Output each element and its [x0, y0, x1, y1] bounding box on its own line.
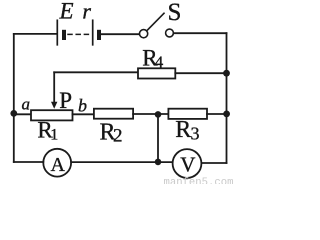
wire slider branch horizontal [54, 71, 138, 73]
wire right vertical rail [226, 33, 228, 163]
wire R3 to right rail [207, 113, 227, 115]
label E [59, 0, 74, 24]
wire R2 to R3 through junction [133, 113, 168, 115]
wire ammeter to voltmeter [71, 161, 172, 163]
ammeter A [43, 149, 71, 177]
label r [82, 0, 91, 24]
svg-text:a: a [22, 94, 31, 113]
resistor R4 [138, 68, 175, 78]
junction dot R4 right [223, 70, 230, 77]
svg-text:V: V [180, 152, 195, 176]
label R1 [37, 118, 58, 144]
battery E r (cells with dashed middle) [57, 20, 101, 45]
wire voltmeter to right rail [201, 162, 226, 164]
watermark manfen5.com [164, 177, 234, 189]
node a junction dot [10, 110, 17, 117]
wire switch to right rail [173, 32, 226, 34]
slider P arrow onto R1 [51, 72, 57, 109]
wire bottom left to ammeter [14, 161, 44, 163]
wire node a to R1 [14, 113, 31, 115]
label a [22, 94, 31, 113]
label R3 [175, 117, 199, 144]
resistor R1 (rheostat track) [31, 110, 73, 120]
label S [168, 0, 182, 26]
svg-text:r: r [82, 0, 91, 24]
resistor R2 [94, 109, 133, 119]
wire junction down to bottom [157, 114, 159, 162]
voltmeter V [173, 149, 202, 178]
svg-text:A: A [51, 154, 66, 176]
svg-text:b: b [78, 95, 87, 115]
svg-text:S: S [168, 0, 182, 26]
junction dot bottom [155, 159, 162, 166]
svg-text:P: P [59, 88, 72, 113]
svg-text:2: 2 [113, 126, 123, 147]
wire R1 to R2 [73, 113, 94, 115]
label V (voltmeter) [180, 152, 195, 176]
svg-text:E: E [59, 0, 74, 24]
wire left vertical [13, 34, 15, 162]
svg-text:3: 3 [191, 124, 200, 144]
svg-text:manfen5.com: manfen5.com [164, 177, 234, 184]
label R2 [100, 120, 123, 147]
junction dot R3 right [223, 111, 230, 118]
wire R4 to right rail [175, 72, 226, 74]
svg-text:4: 4 [155, 53, 164, 72]
resistor R3 [168, 109, 207, 119]
junction dot R2-R3 [155, 111, 162, 118]
switch S [140, 13, 174, 38]
svg-text:R: R [175, 117, 191, 143]
label b [78, 95, 87, 115]
wire top-left [14, 33, 57, 35]
label P [59, 88, 72, 113]
svg-text:1: 1 [50, 127, 58, 144]
label A (ammeter) [51, 154, 66, 176]
label R4 [142, 45, 164, 71]
wire battery to switch [101, 33, 139, 35]
